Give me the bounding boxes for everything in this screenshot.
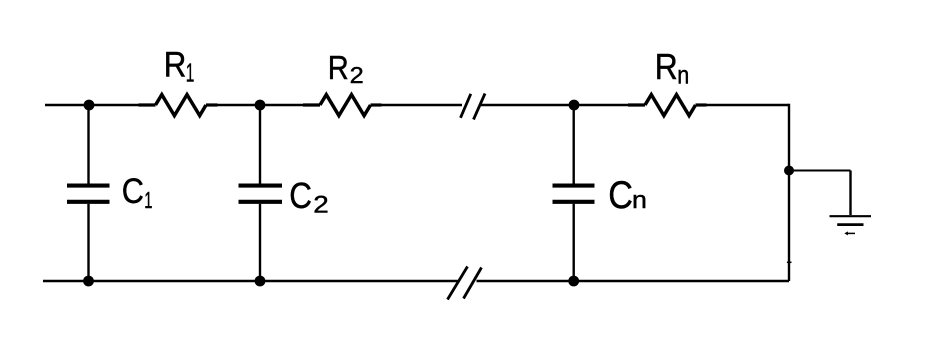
svg-text:R: R [164,45,187,84]
label Rn [655,46,689,90]
node dot output [784,166,794,176]
resistor R2 [303,95,382,116]
svg-text:R: R [655,46,678,87]
wire bottom rail segment left [43,280,458,282]
svg-text:1: 1 [144,187,152,213]
wire top rail segment R2 to break [382,104,463,106]
label C2 [289,175,329,218]
wire top rail segment left [45,104,140,106]
svg-text:C: C [608,174,633,217]
svg-text:1: 1 [186,60,195,88]
node dot top middle [255,100,266,111]
wire ground lead vertical [849,171,851,216]
capacitor C2 [239,105,283,281]
break marks bottom (//) [448,267,482,300]
break marks top (//) [461,94,486,120]
ground arrow tip [844,231,848,235]
svg-text:R: R [328,49,349,86]
wire right vertical [788,104,790,281]
node dot bottom right [568,276,579,287]
capacitor C1 [67,105,110,281]
wire top rail segment R1 to R2 [218,104,305,106]
resistor Rn [628,95,707,116]
label Cn [608,174,647,217]
svg-text:n: n [632,187,647,214]
ground [830,216,872,233]
wire top rail segment break to Rn [481,104,629,106]
wire top rail segment Rn to corner [707,104,790,106]
svg-text:2: 2 [350,62,364,88]
node dot bottom middle [255,276,266,287]
wire bottom rail segment right [477,280,790,282]
svg-text:n: n [677,62,689,90]
node dot top right [569,100,580,111]
junction tick on right vertical [787,261,792,263]
resistor R1 [139,95,218,116]
capacitor Cn [553,105,595,281]
label R2 [328,49,364,88]
node dot top left [84,100,95,111]
node dot bottom left [83,276,94,287]
label R1 [164,45,195,87]
label C1 [122,171,153,213]
wire ground tap horizontal [789,170,851,172]
svg-text:C: C [289,175,312,216]
svg-text:C: C [122,171,144,211]
svg-text:2: 2 [313,191,329,218]
